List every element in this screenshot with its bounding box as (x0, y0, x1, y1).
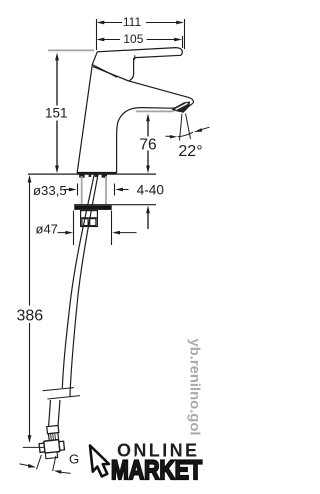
dim 151 line (56, 60, 58, 166)
base gasket tick left (79, 174, 84, 177)
bottom fitting group (rotated) (37, 425, 65, 459)
386 bottom reference line (23, 446, 44, 448)
hose entry tick right (95, 174, 98, 177)
dim o33.5 tick right (114, 184, 116, 196)
dim 111 ext line right (184, 19, 186, 49)
dim o47 ext line left (73, 211, 75, 246)
water stream line right (186, 114, 191, 140)
base gasket tick right (102, 174, 107, 177)
angle 22 leader left (166, 135, 171, 137)
dim 105 ext line right (182, 36, 184, 48)
dim 4-40 lower arrow (147, 212, 149, 229)
hose line 1 (62, 173, 94, 389)
hose break mark upper (43, 388, 75, 391)
hex nut (44, 440, 60, 454)
shank gray line left (81, 176, 83, 204)
aerator (dark wedge) (172, 102, 191, 113)
washer bar (74, 205, 111, 210)
svg-text:151: 151 (45, 106, 68, 121)
svg-text:ø47: ø47 (36, 222, 58, 237)
svg-text:yb.renilno.gol: yb.renilno.gol (188, 339, 203, 436)
shank gray line right (105, 176, 107, 204)
dim G3/8 ext lines (37, 455, 42, 469)
svg-text:105: 105 (123, 32, 143, 46)
handle seam tick (134, 55, 136, 60)
hose line 2 (70, 173, 98, 397)
dim 386 line (29, 181, 31, 436)
water stream line left (180, 114, 183, 141)
svg-text:76: 76 (139, 137, 156, 154)
logo cursor (90, 446, 109, 477)
dim 76 line (147, 121, 149, 166)
svg-text:386: 386 (16, 308, 43, 325)
dim 76 gray extension line (136, 110, 174, 112)
handle skirt line (92, 65, 117, 78)
dim 111 ext line left (96, 19, 98, 50)
lower hose segment (49, 400, 51, 426)
hose end collar (47, 425, 59, 433)
svg-text:22°: 22° (178, 143, 202, 160)
svg-text:4-40: 4-40 (137, 183, 165, 198)
svg-text:111: 111 (123, 15, 142, 29)
dim o33.5 tick left (77, 184, 79, 196)
thread stub below nut (45, 452, 57, 459)
angle 22 arc (178, 132, 194, 137)
hose entry tick left (89, 174, 92, 177)
nut inner square right (90, 219, 96, 226)
hose break mark lower (48, 396, 81, 399)
angle 22 leader right (201, 127, 210, 130)
svg-text:G: G (69, 451, 79, 466)
deck top line (28, 173, 156, 175)
svg-text:MARKET: MARKET (111, 455, 202, 485)
faucet body outline (77, 48, 193, 173)
mounting nut (81, 211, 98, 227)
dim o47 arrows (58, 232, 66, 234)
dim o47 ext line right (111, 211, 113, 246)
deck bottom line (74, 204, 156, 206)
dim 111 line (104, 22, 177, 24)
svg-text:ø33,5: ø33,5 (33, 183, 67, 198)
dim 105 line (104, 39, 175, 41)
dim 151 gray extension tick (48, 49, 94, 51)
base gasket thick line (77, 172, 117, 174)
dim o33.5 arrows (64, 189, 69, 191)
threaded section (49, 433, 59, 441)
dim G3/8 arrows (20, 464, 29, 466)
spout top inner line (93, 67, 129, 81)
logo cursor halo (90, 446, 109, 477)
nut inner square left (82, 219, 88, 226)
